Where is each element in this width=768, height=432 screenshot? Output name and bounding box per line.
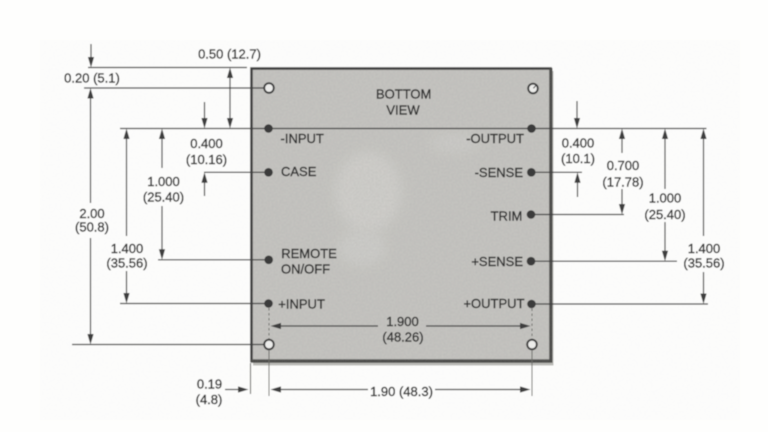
pin -INPUT: [264, 124, 273, 133]
mounting hole bottom-right: [527, 340, 537, 350]
left edge extension below module: [250, 363, 252, 394]
node pin column left dotted: [268, 308, 270, 396]
svg-text:0.400: 0.400: [562, 136, 595, 151]
dimension 0.19 (4.8) arrow right: [225, 386, 249, 392]
svg-text:-SENSE: -SENSE: [475, 165, 524, 180]
svg-text:1.900: 1.900: [386, 314, 419, 329]
svg-text:+INPUT: +INPUT: [278, 296, 325, 311]
svg-text:VIEW: VIEW: [386, 103, 420, 118]
dimension 1.90 (48.3) horizontal double arrow: [271, 386, 531, 392]
smudge patch 3: [429, 133, 481, 153]
svg-text:0.700: 0.700: [607, 158, 640, 173]
pin -SENSE: [527, 168, 536, 177]
REMOTE ON/OFF pin line: [158, 259, 269, 261]
svg-text:(48.26): (48.26): [382, 330, 423, 345]
module body shadow: [253, 71, 554, 366]
svg-text:+SENSE: +SENSE: [471, 254, 523, 269]
top edge extension line: [88, 67, 247, 69]
+OUTPUT pin line: [532, 303, 709, 305]
svg-text:TRIM: TRIM: [491, 209, 523, 224]
svg-text:-OUTPUT: -OUTPUT: [466, 131, 524, 146]
pin REMOTE ON/OFF: [264, 255, 273, 264]
dimension 1.400 (35.56) left double arrow: [123, 129, 129, 304]
CASE pin line: [204, 171, 269, 173]
svg-text:(17.78): (17.78): [602, 174, 643, 189]
dimension 0.700 (17.78) double arrow: [619, 129, 625, 215]
svg-text:ON/OFF: ON/OFF: [281, 261, 330, 276]
pin +OUTPUT: [527, 300, 536, 309]
smudge patch 1: [335, 152, 401, 232]
pin +SENSE: [527, 257, 536, 266]
-SENSE pin line: [532, 171, 583, 173]
module body (bottom view): [252, 69, 551, 362]
svg-text:1.000: 1.000: [147, 174, 180, 189]
svg-text:REMOTE: REMOTE: [281, 246, 337, 261]
svg-text:0.400: 0.400: [190, 136, 223, 151]
svg-text:1.90 (48.3): 1.90 (48.3): [370, 384, 433, 399]
node pin column right dotted: [531, 309, 533, 397]
svg-text:(10.1): (10.1): [561, 151, 595, 166]
smudge patch 2: [338, 230, 386, 266]
module bottom edge thick: [251, 359, 553, 362]
svg-text:(50.8): (50.8): [75, 220, 109, 235]
svg-text:CASE: CASE: [281, 164, 317, 179]
svg-text:1.000: 1.000: [649, 191, 682, 206]
dimension 1.900 (48.26) horizontal double arrow: [271, 323, 531, 329]
dimension 0.400 (10.1) right outside arrows: [574, 101, 581, 197]
dimension 1.400 (35.56) right double arrow: [700, 129, 706, 305]
svg-text:0.19: 0.19: [197, 377, 222, 392]
pin -OUTPUT: [527, 124, 536, 133]
svg-text:(10.16): (10.16): [186, 152, 227, 167]
svg-text:-INPUT: -INPUT: [281, 131, 324, 146]
+SENSE pin line: [531, 260, 677, 262]
dimension 1.000 (25.40) left double arrow: [159, 129, 165, 260]
mounting hole bottom-left: [264, 340, 274, 350]
+INPUT pin line: [120, 303, 269, 305]
mounting hole top-left: [264, 83, 274, 93]
mounting hole top extension line: [84, 87, 264, 89]
TRIM pin line: [531, 214, 624, 216]
svg-text:BOTTOM: BOTTOM: [376, 87, 431, 102]
module right edge thick: [550, 68, 553, 362]
label BOTTOM VIEW: [376, 87, 431, 118]
dimension 0.20 (5.1) arrow down: [88, 44, 94, 68]
svg-text:(25.40): (25.40): [644, 207, 685, 222]
module texture: [253, 70, 550, 360]
svg-text:1.400: 1.400: [111, 241, 144, 256]
svg-text:(25.40): (25.40): [143, 190, 184, 205]
mounting hole top-right: [528, 84, 538, 94]
dimension 2.00 (50.8) vertical line: [87, 88, 93, 345]
svg-text:0.50 (12.7): 0.50 (12.7): [198, 47, 261, 62]
mounting hole bottom extension line: [72, 344, 269, 346]
pin TRIM: [527, 210, 536, 219]
svg-text:(4.8): (4.8): [196, 392, 223, 407]
svg-text:(35.56): (35.56): [683, 256, 724, 271]
dimension 0.400 (10.16) outside arrows: [201, 102, 207, 196]
dimension 0.50 (12.7) double arrow: [227, 68, 233, 129]
svg-text:0.20 (5.1): 0.20 (5.1): [64, 71, 120, 86]
svg-text:(35.56): (35.56): [106, 256, 147, 271]
svg-text:+OUTPUT: +OUTPUT: [463, 296, 524, 311]
dimension 1.000 (25.40) right double arrow: [662, 129, 668, 262]
wire -INPUT to -OUTPUT row line: [120, 128, 707, 130]
pin CASE: [264, 168, 273, 177]
pin +INPUT: [264, 299, 273, 308]
svg-text:1.400: 1.400: [688, 241, 721, 256]
